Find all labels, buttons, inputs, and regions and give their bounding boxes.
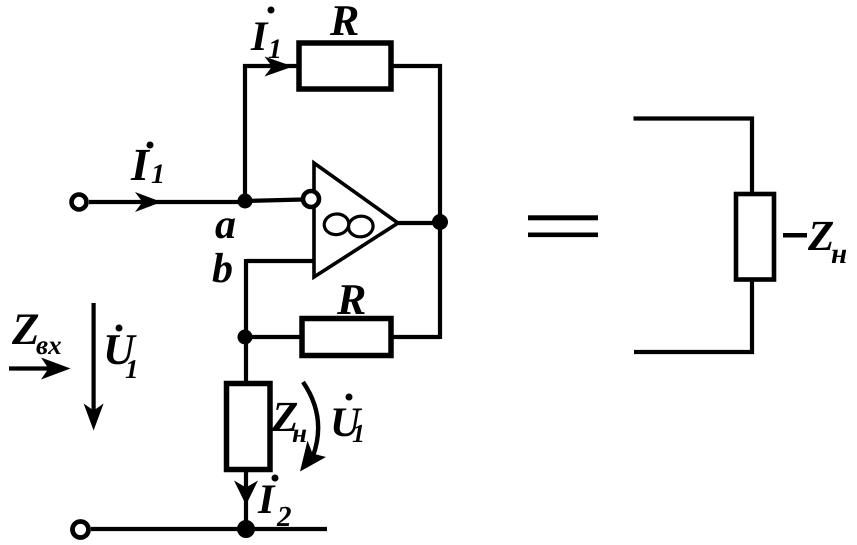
- node b junction: [238, 330, 253, 345]
- label I1 top: [250, 7, 282, 66]
- wire node a to op-amp input: [244, 200, 303, 202]
- svg-text:a: a: [215, 202, 236, 248]
- svg-text:1: 1: [125, 354, 139, 384]
- svg-text:1: 1: [352, 419, 365, 448]
- svg-text:R: R: [329, 0, 359, 45]
- resistor Zn: [227, 384, 271, 470]
- label U1 left: [103, 325, 139, 385]
- label U1 right: [330, 394, 365, 449]
- node a: [238, 194, 253, 209]
- wire node b down to Zn: [244, 337, 248, 385]
- current arrow I2: [234, 481, 258, 506]
- wire op-amp output: [396, 221, 440, 225]
- wire node a up: [243, 64, 247, 202]
- wire R2 right: [391, 335, 440, 339]
- op-amp input circle: [303, 191, 319, 207]
- label -Zn: [783, 213, 847, 270]
- voltage arrow U1 curved: [300, 382, 326, 472]
- op-amp gain symbol: [323, 213, 374, 238]
- svg-text:н: н: [831, 238, 847, 270]
- current arrow I1 input: [135, 192, 162, 212]
- equivalence sign: [528, 215, 598, 237]
- label I1 input: [130, 139, 165, 190]
- wire R1 right: [391, 64, 442, 68]
- svg-text:1: 1: [151, 159, 165, 190]
- node output junction: [432, 214, 448, 230]
- svg-text:1: 1: [268, 34, 282, 65]
- wire equivalent bottom: [634, 279, 752, 352]
- node bottom junction: [237, 520, 255, 538]
- label I2: [257, 475, 292, 534]
- resistor -Zn: [736, 194, 774, 280]
- wire input horizontal: [89, 200, 246, 204]
- terminal T2: [73, 522, 89, 538]
- wire Zn down: [244, 469, 248, 529]
- current arrow I1 top: [265, 57, 294, 77]
- wire b horizontal: [246, 259, 315, 263]
- wire b vertical: [244, 259, 248, 339]
- svg-text:b: b: [212, 246, 233, 292]
- wire bottom horizontal: [91, 527, 327, 531]
- wire equivalent top: [634, 119, 753, 196]
- resistor R1: [299, 43, 391, 89]
- resistor R2: [302, 319, 391, 356]
- svg-text:R: R: [336, 275, 366, 324]
- voltage arrow U1 left: [84, 303, 104, 431]
- input terminal T1: [72, 195, 87, 210]
- wire right vertical feedback: [438, 64, 442, 339]
- svg-text:I: I: [250, 14, 269, 60]
- wire node to R2: [245, 335, 302, 339]
- svg-text:вх: вх: [36, 330, 62, 360]
- label Zvx: [11, 304, 62, 360]
- wire top horizontal to R1: [243, 64, 299, 68]
- label Zn: [271, 394, 307, 448]
- op-amp U1: [314, 163, 398, 277]
- svg-text:I: I: [257, 477, 276, 523]
- impedance arrow Zvx: [9, 358, 71, 380]
- svg-text:н: н: [292, 418, 307, 448]
